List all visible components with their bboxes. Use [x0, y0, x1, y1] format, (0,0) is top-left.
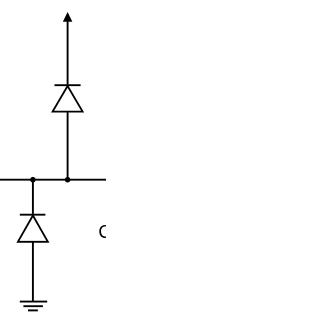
svg-text:C: C [98, 222, 106, 242]
